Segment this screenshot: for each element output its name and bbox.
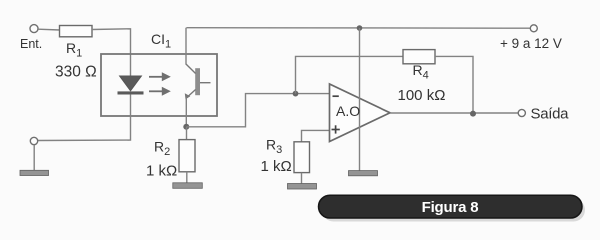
terminal input return bbox=[30, 137, 37, 144]
LED inside CI1 bbox=[118, 76, 144, 95]
svg-text:100 kΩ: 100 kΩ bbox=[398, 87, 446, 104]
wire +V supply rail bbox=[186, 27, 533, 30]
resistor R4 bbox=[403, 50, 435, 64]
svg-text:330 Ω: 330 Ω bbox=[55, 64, 97, 81]
op-amp inverting pin mark bbox=[333, 95, 339, 97]
svg-text:Ent.: Ent. bbox=[20, 37, 42, 51]
wire collector up to +V rail bbox=[185, 28, 187, 64]
wire emitter down to node bbox=[185, 98, 187, 128]
Figura 8 banner shadow bbox=[322, 199, 585, 222]
ground (input return) bbox=[20, 170, 49, 175]
ground (R3) bbox=[288, 184, 317, 190]
wire LED cathode down and left to return terminal bbox=[38, 94, 131, 140]
ground (op-amp) bbox=[349, 171, 378, 176]
svg-text:Figura 8: Figura 8 bbox=[422, 199, 479, 216]
terminal Saida bbox=[518, 109, 525, 116]
wire input terminal to R1 bbox=[38, 28, 60, 31]
resistor R3 bbox=[294, 142, 310, 173]
op-amp U1 triangle bbox=[330, 84, 391, 142]
wire feedback node up to R4 bbox=[296, 56, 404, 93]
resistor R2 bbox=[179, 140, 195, 172]
Figura 8 banner bbox=[319, 195, 583, 218]
node +V rail to op-amp supply bbox=[357, 25, 363, 31]
ground (R2) bbox=[173, 183, 203, 189]
terminal Ent. (input) bbox=[30, 25, 38, 33]
svg-text:CI1: CI1 bbox=[151, 31, 171, 51]
svg-text:Saída: Saída bbox=[531, 106, 570, 123]
wire op-amp supply from rail through to ground bbox=[359, 28, 361, 171]
wire terminal to ground bbox=[33, 145, 35, 171]
terminal +V bbox=[530, 25, 537, 32]
svg-text:+ 9 a 12 V: + 9 a 12 V bbox=[500, 36, 562, 51]
wire op-amp output to Saida terminal bbox=[390, 112, 518, 114]
light coupling arrow 1 bbox=[149, 72, 171, 81]
svg-text:R3: R3 bbox=[266, 137, 282, 157]
resistor R1 bbox=[60, 26, 93, 37]
light coupling arrow 2 bbox=[149, 87, 171, 96]
svg-text:R1: R1 bbox=[66, 40, 82, 60]
wire R1 to LED anode (down into CI1) bbox=[92, 29, 131, 77]
wire R2 to ground bbox=[186, 172, 188, 183]
node output/feedback junction bbox=[470, 111, 476, 117]
optocoupler CI1 box bbox=[101, 54, 217, 116]
svg-text:R2: R2 bbox=[154, 139, 170, 159]
phototransistor of CI1 bbox=[185, 64, 211, 100]
svg-text:1 kΩ: 1 kΩ bbox=[146, 162, 177, 179]
op-amp non-inverting pin mark bbox=[332, 125, 340, 133]
node feedback junction bbox=[293, 91, 299, 97]
wire node to op-amp inverting input bbox=[186, 94, 329, 127]
svg-text:R4: R4 bbox=[413, 62, 429, 82]
wire R4 right side down to output node bbox=[435, 56, 473, 113]
svg-text:1 kΩ: 1 kΩ bbox=[261, 158, 292, 175]
wire op-amp + input to R3 bbox=[302, 130, 330, 142]
svg-text:A.O: A.O bbox=[336, 103, 360, 119]
node emitter/R2 junction bbox=[183, 124, 189, 130]
wire R3 to ground bbox=[301, 173, 303, 184]
wire node down to R2 bbox=[186, 127, 188, 140]
